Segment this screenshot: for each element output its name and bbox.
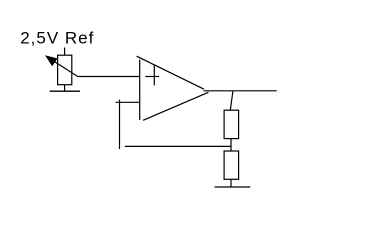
resistor lower divider <box>224 151 239 179</box>
potentiometer (2,5V reference trimmer) <box>45 48 78 92</box>
wire feedback to divider midpoint <box>125 145 231 147</box>
wire inverting input vertical <box>119 100 121 149</box>
wire op-amp output <box>204 90 277 92</box>
ground <box>215 186 251 188</box>
wire lower resistor to ground <box>230 179 232 187</box>
wire output to divider tap <box>230 91 233 110</box>
wire inverting input stub <box>116 101 140 103</box>
svg-text:2,5V Ref: 2,5V Ref <box>20 28 94 47</box>
resistor upper divider <box>224 110 239 138</box>
wire divider midpoint <box>230 139 232 151</box>
ground <box>50 90 80 92</box>
wire wiper to op-amp non-inverting input <box>78 76 140 78</box>
op-amp U1 <box>137 56 209 120</box>
